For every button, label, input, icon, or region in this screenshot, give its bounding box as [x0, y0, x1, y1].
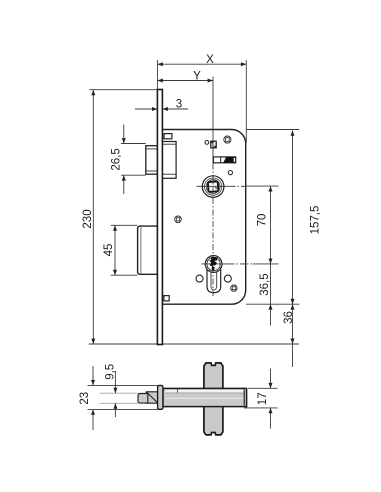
svg-text:17: 17	[257, 392, 269, 405]
svg-text:9,5: 9,5	[104, 364, 116, 380]
svg-text:70: 70	[257, 214, 269, 227]
svg-text:23: 23	[79, 392, 91, 405]
svg-text:Y: Y	[193, 71, 201, 83]
svg-text:157,5: 157,5	[309, 206, 321, 235]
svg-text:3: 3	[176, 98, 182, 110]
svg-text:45: 45	[103, 244, 115, 257]
svg-text:36: 36	[283, 311, 295, 324]
svg-text:230: 230	[82, 209, 94, 228]
svg-text:X: X	[206, 54, 214, 66]
svg-text:36,5: 36,5	[259, 273, 271, 295]
svg-text:26,5: 26,5	[110, 148, 122, 170]
